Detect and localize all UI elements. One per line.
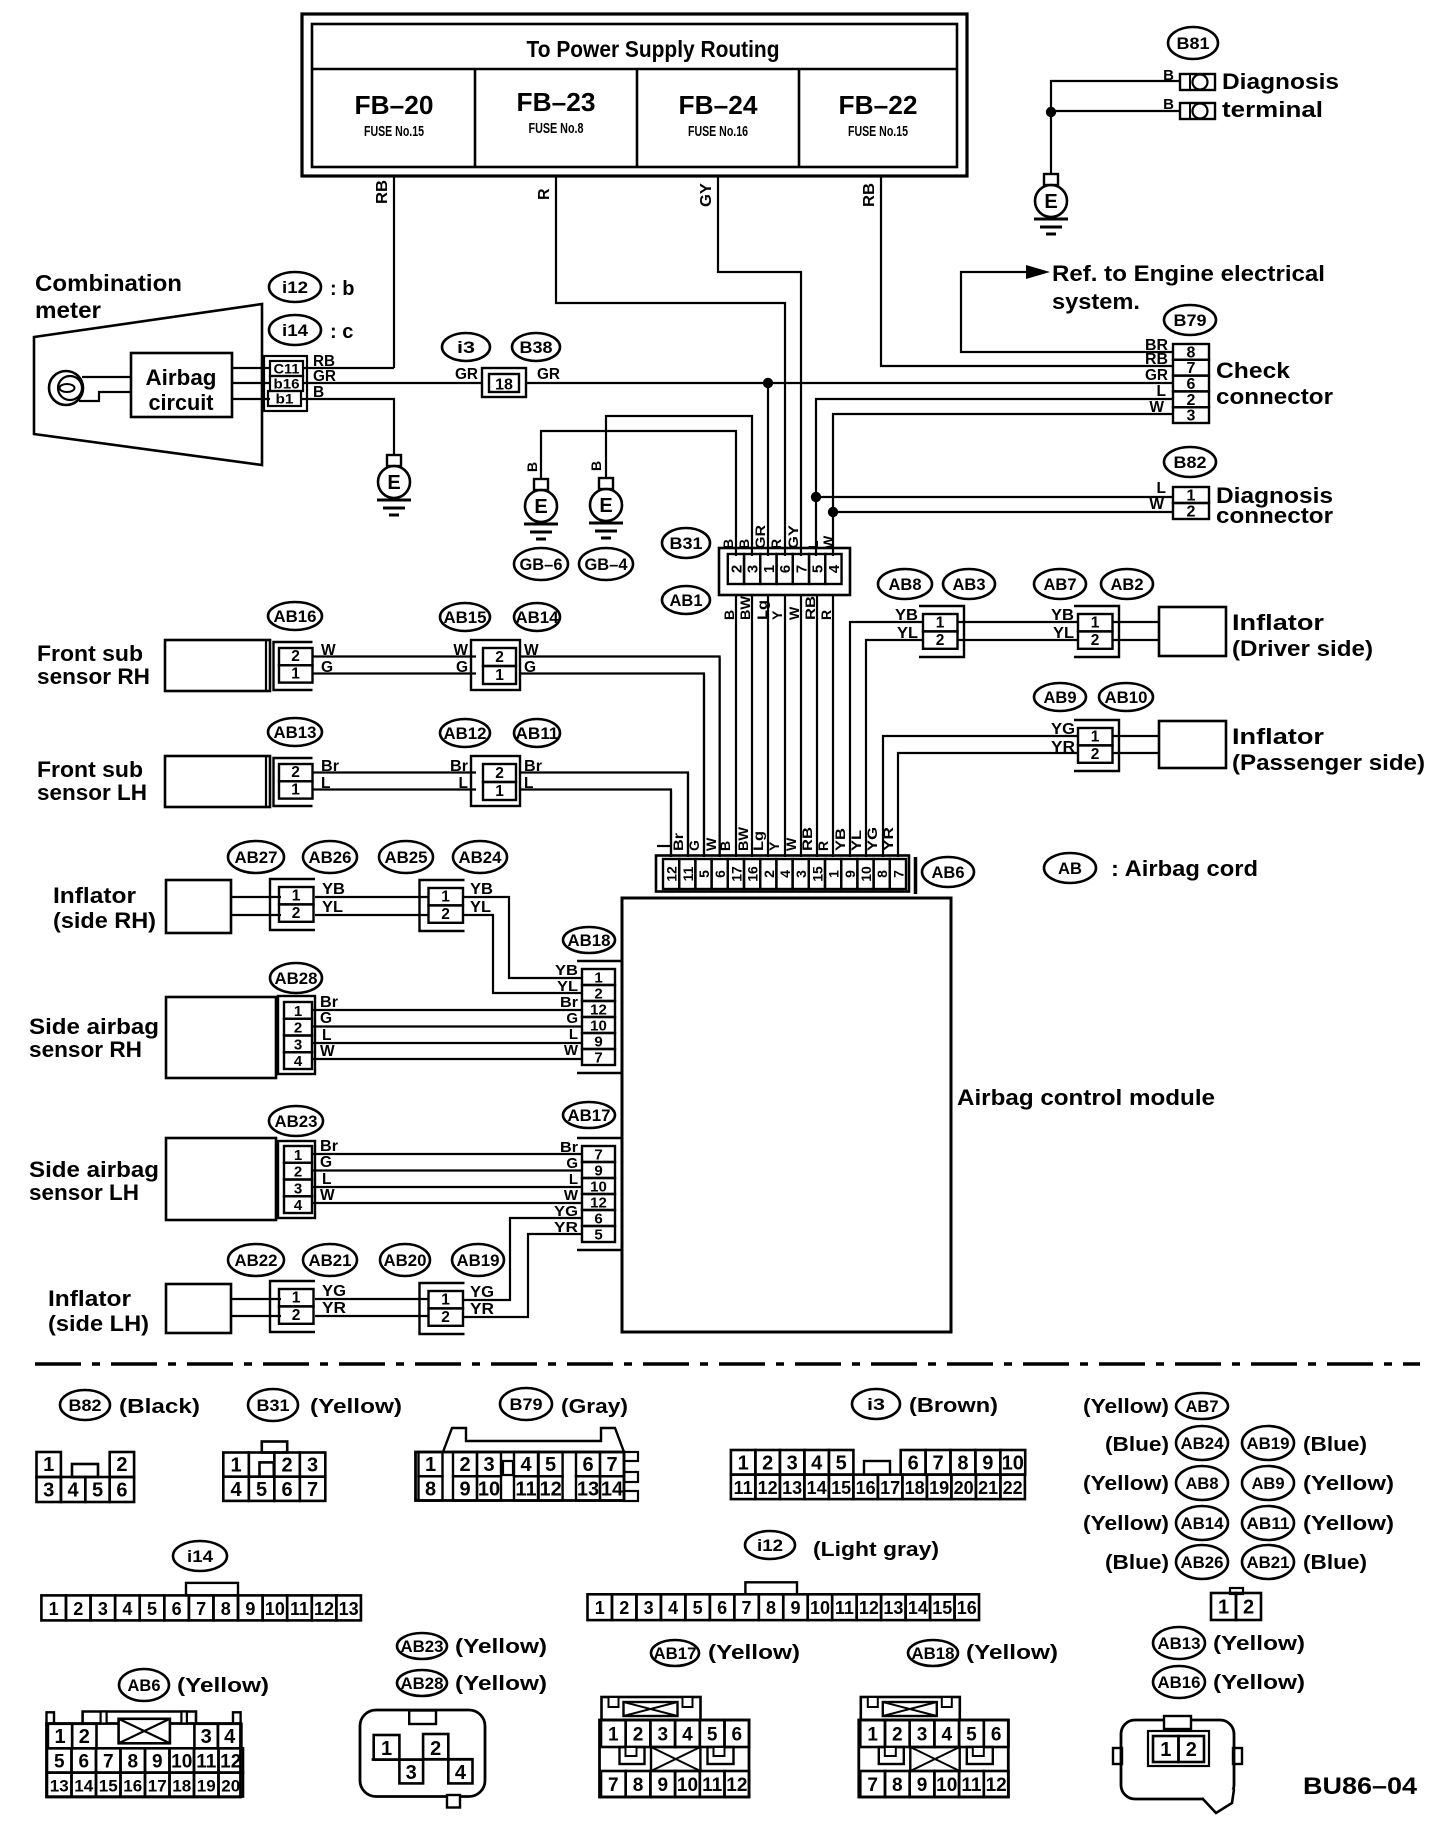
svg-text:W: W bbox=[1149, 496, 1164, 513]
svg-text:RB: RB bbox=[799, 827, 815, 851]
label AB10 bbox=[1099, 683, 1153, 711]
svg-text:7: 7 bbox=[196, 1599, 206, 1619]
legend connector 2pin rounded bbox=[1113, 1716, 1242, 1813]
svg-text:4: 4 bbox=[826, 564, 843, 573]
svg-text:AB3: AB3 bbox=[953, 575, 986, 594]
svg-text:YG: YG bbox=[470, 1284, 494, 1301]
ground E GB-6 bbox=[524, 479, 558, 539]
svg-text:1: 1 bbox=[936, 615, 945, 632]
svg-text:AB7: AB7 bbox=[1186, 1397, 1219, 1416]
wire YG AB19 to AB17 pin 6 bbox=[463, 1218, 582, 1300]
svg-text:AB21: AB21 bbox=[1247, 1553, 1290, 1572]
svg-text:(Driver side): (Driver side) bbox=[1232, 636, 1373, 661]
svg-text:7: 7 bbox=[103, 1751, 114, 1772]
svg-text:Front sub: Front sub bbox=[37, 641, 143, 666]
svg-text:4: 4 bbox=[294, 1197, 303, 1214]
svg-text:4: 4 bbox=[777, 870, 793, 878]
svg-text:circuit: circuit bbox=[149, 390, 215, 415]
wire YR AB21 to AB20 bbox=[315, 1315, 429, 1317]
svg-text:(Passenger side): (Passenger side) bbox=[1232, 750, 1425, 775]
text Front sub sensor RH bbox=[37, 641, 150, 689]
svg-text:FB–24: FB–24 bbox=[679, 90, 759, 120]
svg-text:sensor RH: sensor RH bbox=[37, 664, 150, 689]
svg-text:2: 2 bbox=[291, 648, 300, 665]
svg-text:2: 2 bbox=[761, 870, 777, 878]
label AB13 bbox=[268, 718, 322, 746]
wire YR from AB9 to AB6 pin 7 area bbox=[898, 753, 1078, 857]
svg-text:GR: GR bbox=[752, 525, 768, 549]
svg-text:5: 5 bbox=[545, 1454, 556, 1476]
svg-text:Inflator: Inflator bbox=[53, 883, 136, 908]
legend connector AB6 bbox=[47, 1712, 244, 1798]
text Ref. to Engine electrical system bbox=[1052, 261, 1325, 314]
separator line bbox=[35, 1362, 1420, 1366]
svg-text:AB19: AB19 bbox=[457, 1251, 500, 1270]
airbag warning lamp bbox=[49, 371, 83, 405]
svg-text:i3: i3 bbox=[457, 338, 475, 357]
legend label i3 (Brown) bbox=[852, 1389, 998, 1419]
legend label AB11 (Yellow) bbox=[1242, 1506, 1394, 1540]
text Diagnosis terminal bbox=[1222, 69, 1339, 122]
wires airbag circuit to meter connector bbox=[232, 368, 270, 399]
svg-text:14: 14 bbox=[74, 1777, 93, 1796]
wire B from b1 to ground bbox=[301, 399, 394, 455]
side airbag sensor LH box bbox=[166, 1138, 276, 1220]
svg-text:AB23: AB23 bbox=[275, 1112, 318, 1131]
svg-text:GY: GY bbox=[785, 524, 801, 549]
svg-text:GR: GR bbox=[455, 366, 478, 383]
svg-text:W: W bbox=[564, 1042, 579, 1059]
svg-text:YL: YL bbox=[848, 829, 864, 851]
svg-text:2: 2 bbox=[441, 1309, 450, 1326]
svg-text:9: 9 bbox=[152, 1751, 163, 1772]
wire RB from FB-20 to combination meter C11 bbox=[374, 176, 394, 368]
label AB1 bbox=[662, 586, 710, 614]
svg-text:FUSE No.15: FUSE No.15 bbox=[364, 123, 424, 140]
svg-text:7: 7 bbox=[890, 870, 906, 878]
svg-text:AB9: AB9 bbox=[1044, 688, 1077, 707]
svg-text:L: L bbox=[1157, 480, 1166, 497]
svg-text:3: 3 bbox=[201, 1726, 212, 1748]
junction W wire bbox=[828, 507, 838, 517]
svg-text:sensor RH: sensor RH bbox=[29, 1037, 142, 1062]
svg-text:21: 21 bbox=[978, 1478, 998, 1498]
svg-text:2: 2 bbox=[1187, 504, 1196, 521]
text Inflator (Driver side) bbox=[1232, 610, 1373, 661]
svg-text:GB–4: GB–4 bbox=[585, 555, 629, 574]
svg-text:YG: YG bbox=[322, 1283, 346, 1300]
svg-text:7: 7 bbox=[606, 1454, 617, 1476]
svg-text:20: 20 bbox=[221, 1777, 240, 1796]
svg-text:R: R bbox=[818, 610, 834, 620]
text Side airbag sensor RH bbox=[29, 1014, 159, 1062]
combination meter body bbox=[34, 304, 262, 465]
wire stub left of AB6 bbox=[657, 845, 671, 847]
svg-text:R: R bbox=[815, 841, 831, 851]
svg-text:B: B bbox=[588, 461, 604, 471]
svg-text:12: 12 bbox=[859, 1598, 879, 1618]
svg-text:2: 2 bbox=[892, 1725, 903, 1746]
wire L AB13 to AB12 bbox=[312, 788, 476, 790]
wire Br AB28 to AB18 pin 12 bbox=[312, 1009, 582, 1011]
label AB8 bbox=[878, 569, 932, 599]
label B82 bbox=[1164, 447, 1216, 477]
wire GR junction down to B31 pin 1 bbox=[767, 383, 769, 556]
svg-text:YB: YB bbox=[322, 881, 345, 898]
svg-text:G: G bbox=[686, 840, 702, 851]
svg-text:12: 12 bbox=[539, 1479, 561, 1501]
svg-text:AB13: AB13 bbox=[1158, 1634, 1201, 1653]
label AB25 bbox=[379, 841, 433, 873]
svg-text:11: 11 bbox=[835, 1598, 854, 1618]
svg-text:GB–6: GB–6 bbox=[520, 555, 563, 574]
svg-text:(Yellow): (Yellow) bbox=[1303, 1513, 1394, 1535]
svg-text:18: 18 bbox=[495, 377, 513, 394]
svg-text:3: 3 bbox=[787, 1452, 798, 1474]
wire B82 pin 1 line bbox=[816, 496, 1173, 498]
text Inflator (side LH) bbox=[48, 1286, 149, 1336]
svg-text:2: 2 bbox=[619, 1598, 629, 1618]
label GB-6 bbox=[514, 548, 568, 580]
wire B from B31 pin 2 to GB-6 bbox=[541, 431, 736, 556]
svg-text:B81: B81 bbox=[1177, 34, 1210, 53]
connector AB7/AB2 bbox=[1074, 606, 1119, 657]
legend label AB26 (Blue) bbox=[1105, 1545, 1228, 1579]
svg-text:(Yellow): (Yellow) bbox=[1083, 1513, 1169, 1535]
connector B82 diagnosis connector bbox=[1173, 487, 1209, 503]
svg-text:1: 1 bbox=[1160, 1739, 1171, 1761]
svg-text:(Blue): (Blue) bbox=[1303, 1434, 1367, 1456]
svg-text:13: 13 bbox=[782, 1478, 802, 1498]
svg-text:6: 6 bbox=[281, 1479, 292, 1501]
label AB21 bbox=[303, 1244, 357, 1276]
svg-text:8: 8 bbox=[633, 1775, 644, 1796]
svg-text:RB: RB bbox=[802, 596, 818, 620]
svg-text:b1: b1 bbox=[276, 392, 295, 407]
svg-text:1: 1 bbox=[49, 1599, 59, 1619]
svg-text:2: 2 bbox=[459, 1454, 470, 1476]
svg-text:i14: i14 bbox=[282, 321, 309, 340]
svg-text:B79: B79 bbox=[510, 1395, 543, 1414]
wire to ground E (B81) bbox=[1050, 112, 1052, 174]
svg-text:AB19: AB19 bbox=[1247, 1434, 1290, 1453]
svg-text:3: 3 bbox=[406, 1762, 417, 1784]
svg-text:14: 14 bbox=[908, 1598, 928, 1618]
wires down into AB6 from sensors bbox=[671, 658, 720, 857]
svg-text:2: 2 bbox=[495, 765, 504, 782]
svg-text:(Blue): (Blue) bbox=[1105, 1434, 1169, 1456]
svg-text:i3: i3 bbox=[867, 1395, 885, 1414]
wire G AB28 to AB18 pin 10 bbox=[312, 1025, 582, 1027]
connector AB18 bbox=[577, 961, 622, 1073]
svg-text:11: 11 bbox=[290, 1599, 309, 1619]
svg-text:2: 2 bbox=[1186, 1739, 1197, 1761]
legend label B79 (Gray) bbox=[500, 1388, 628, 1420]
svg-text:YR: YR bbox=[880, 827, 896, 851]
svg-text:4: 4 bbox=[294, 1053, 303, 1070]
svg-text:5: 5 bbox=[147, 1599, 157, 1619]
svg-text:AB26: AB26 bbox=[1181, 1553, 1224, 1572]
svg-text:AB22: AB22 bbox=[235, 1251, 278, 1270]
connector AB15/AB14 bbox=[471, 640, 520, 690]
svg-text:W: W bbox=[786, 606, 802, 620]
wires inflator RH box to AB27 bbox=[231, 897, 281, 915]
svg-text:3: 3 bbox=[657, 1725, 668, 1746]
svg-text:1: 1 bbox=[291, 666, 300, 683]
label B38 bbox=[512, 333, 560, 361]
wire labels above B31 bbox=[720, 524, 836, 549]
svg-text:12: 12 bbox=[726, 1775, 747, 1796]
svg-text:4: 4 bbox=[811, 1452, 823, 1474]
svg-text:3: 3 bbox=[917, 1725, 928, 1746]
svg-text:6: 6 bbox=[116, 1480, 127, 1502]
svg-text:sensor LH: sensor LH bbox=[29, 1180, 139, 1205]
label AB9 bbox=[1034, 683, 1086, 711]
svg-text:B79: B79 bbox=[1174, 311, 1207, 330]
legend label AB23 (Yellow) bbox=[397, 1633, 547, 1659]
svg-text:12: 12 bbox=[758, 1478, 778, 1498]
text Diagnosis connector bbox=[1216, 483, 1333, 528]
airbag circuit box bbox=[131, 353, 232, 417]
svg-text:AB28: AB28 bbox=[401, 1674, 444, 1693]
ground E GB-4 bbox=[589, 478, 623, 538]
wire YL AB24 to AB18 pin 2 bbox=[463, 915, 582, 993]
svg-text:1: 1 bbox=[291, 782, 300, 799]
svg-text:GR: GR bbox=[537, 366, 560, 383]
legend label AB21 (Blue) bbox=[1242, 1545, 1367, 1579]
front sub sensor LH box bbox=[165, 756, 270, 807]
svg-text:1: 1 bbox=[381, 1738, 392, 1760]
svg-text:11: 11 bbox=[734, 1478, 753, 1498]
label i3 bbox=[442, 333, 490, 361]
svg-text:AB16: AB16 bbox=[274, 607, 317, 626]
svg-text:connector: connector bbox=[1216, 384, 1333, 409]
svg-text:5: 5 bbox=[594, 1227, 602, 1244]
fuse FB-20 label bbox=[355, 90, 434, 140]
label B79 bbox=[1164, 305, 1216, 335]
label AB23 bbox=[269, 1106, 323, 1136]
inflator passenger side box bbox=[1159, 721, 1226, 768]
legend label AB18 (Yellow) bbox=[908, 1640, 1058, 1666]
svg-text:(Yellow): (Yellow) bbox=[177, 1675, 269, 1697]
connector AB25/AB24 bbox=[420, 880, 465, 931]
svg-text:4: 4 bbox=[941, 1725, 952, 1746]
svg-text:AB25: AB25 bbox=[385, 848, 428, 867]
label AB2 bbox=[1101, 569, 1153, 599]
legend connector AB28 bbox=[360, 1710, 485, 1808]
svg-text:2: 2 bbox=[292, 905, 301, 922]
connector AB20/AB19 bbox=[420, 1283, 465, 1334]
junction B81 wires bbox=[1046, 107, 1056, 117]
svg-text:1: 1 bbox=[43, 1454, 54, 1476]
wire YB AB26 to AB25 bbox=[315, 896, 429, 898]
svg-text:2: 2 bbox=[633, 1725, 644, 1746]
wire G AB23 to AB17 pin 9 bbox=[312, 1169, 582, 1171]
svg-text:3: 3 bbox=[98, 1599, 108, 1619]
svg-text:W: W bbox=[783, 837, 799, 851]
svg-text:9: 9 bbox=[917, 1775, 928, 1796]
svg-text:2: 2 bbox=[1243, 1597, 1254, 1619]
inline connector 18 bbox=[482, 368, 526, 397]
svg-text:system.: system. bbox=[1052, 289, 1140, 314]
svg-text:18: 18 bbox=[905, 1478, 925, 1498]
wire YG from AB9 to AB6 pin 8 area bbox=[883, 736, 1078, 857]
svg-text:BU86–04: BU86–04 bbox=[1303, 1773, 1418, 1800]
label AB27 bbox=[228, 841, 284, 873]
wire RB from FB-22 to B79 pin 7 bbox=[861, 176, 1173, 366]
svg-text:AB14: AB14 bbox=[516, 608, 560, 627]
front sub sensor RH box bbox=[165, 640, 270, 691]
svg-text:G: G bbox=[566, 1155, 578, 1172]
svg-text:12: 12 bbox=[664, 866, 680, 882]
svg-text:Br: Br bbox=[670, 832, 686, 851]
svg-text:9: 9 bbox=[842, 870, 858, 878]
wire C11 to RB riser bbox=[303, 367, 394, 369]
svg-text:3: 3 bbox=[644, 1598, 654, 1618]
svg-text:sensor LH: sensor LH bbox=[37, 780, 147, 805]
wire B82 pin 2 line bbox=[833, 511, 1173, 513]
svg-text:9: 9 bbox=[459, 1479, 470, 1501]
svg-text:(side LH): (side LH) bbox=[48, 1311, 149, 1336]
svg-text:terminal: terminal bbox=[1222, 97, 1323, 122]
svg-text:10: 10 bbox=[810, 1598, 830, 1618]
wire YG AB21 to AB20 bbox=[315, 1298, 429, 1300]
fuse FB-24 label bbox=[679, 90, 759, 140]
label AB17 bbox=[563, 1102, 615, 1128]
fuse FB-22 label bbox=[839, 90, 918, 140]
svg-text:1: 1 bbox=[826, 870, 842, 878]
svg-text:YL: YL bbox=[557, 978, 578, 995]
svg-text:5: 5 bbox=[256, 1479, 267, 1501]
legend label AB19 (Blue) bbox=[1242, 1426, 1367, 1460]
wire B from B31 pin 3 to GB-4 bbox=[606, 416, 752, 556]
svg-text:1: 1 bbox=[425, 1454, 436, 1476]
svg-text:15: 15 bbox=[831, 1478, 851, 1498]
svg-text:3: 3 bbox=[294, 1180, 302, 1197]
label AB20 bbox=[380, 1244, 430, 1276]
wire W AB28 to AB18 pin 7 bbox=[312, 1058, 582, 1060]
svg-text:2: 2 bbox=[79, 1726, 90, 1748]
svg-text:E: E bbox=[1044, 191, 1057, 213]
label AB18 bbox=[563, 927, 615, 953]
legend label AB7 (Yellow) bbox=[1083, 1393, 1228, 1419]
svg-text:W: W bbox=[564, 1187, 579, 1204]
svg-text:3: 3 bbox=[43, 1480, 54, 1502]
svg-text:4: 4 bbox=[682, 1725, 693, 1746]
connector AB27/AB26 bbox=[270, 879, 315, 930]
svg-text:(Yellow): (Yellow) bbox=[966, 1642, 1058, 1664]
svg-text:(Yellow): (Yellow) bbox=[1303, 1473, 1394, 1495]
label AB3 bbox=[943, 569, 995, 599]
wire AB2 to driver inflator bbox=[1113, 622, 1159, 640]
svg-text:1: 1 bbox=[867, 1725, 878, 1746]
connector AB12/AB11 bbox=[471, 756, 520, 806]
svg-text:4: 4 bbox=[68, 1480, 80, 1502]
svg-text:(Black): (Black) bbox=[119, 1396, 200, 1418]
svg-text:2: 2 bbox=[441, 906, 450, 923]
legend label AB13 (Yellow) bbox=[1153, 1627, 1305, 1659]
svg-text:7: 7 bbox=[932, 1452, 943, 1474]
svg-text:16: 16 bbox=[123, 1777, 142, 1796]
fuse FB-23 label bbox=[517, 87, 596, 137]
svg-text:FB–23: FB–23 bbox=[517, 87, 596, 117]
wire YR AB19 to AB17 pin 5 bbox=[463, 1234, 582, 1317]
svg-text:AB27: AB27 bbox=[235, 848, 278, 867]
svg-text:1: 1 bbox=[738, 1452, 749, 1474]
connector AB9/AB10 bbox=[1074, 720, 1119, 771]
svg-text:Br: Br bbox=[450, 758, 468, 775]
inflator driver side box bbox=[1159, 607, 1226, 656]
wire YB AB24 to AB18 pin 1 bbox=[463, 897, 582, 978]
svg-text:10: 10 bbox=[936, 1775, 957, 1796]
text Combination meter bbox=[35, 270, 182, 323]
wire lamp to airbag circuit bbox=[79, 377, 131, 401]
label AB airbag cord bbox=[1044, 853, 1258, 883]
svg-text:6: 6 bbox=[712, 870, 728, 878]
svg-text:11: 11 bbox=[702, 1775, 723, 1796]
svg-text:AB12: AB12 bbox=[444, 724, 487, 743]
svg-text:1: 1 bbox=[495, 667, 504, 684]
svg-text:1: 1 bbox=[495, 783, 504, 800]
label AB19 bbox=[452, 1244, 504, 1276]
svg-text:5: 5 bbox=[836, 1452, 847, 1474]
svg-text:GY: GY bbox=[698, 183, 715, 207]
svg-text:i12: i12 bbox=[282, 278, 308, 297]
svg-text:BW: BW bbox=[735, 826, 751, 851]
svg-text:10: 10 bbox=[1002, 1452, 1024, 1474]
svg-text:G: G bbox=[320, 1154, 332, 1171]
svg-text:L: L bbox=[322, 1027, 331, 1044]
svg-text:6: 6 bbox=[582, 1454, 593, 1476]
wire B from diagnosis terminal 1 bbox=[1051, 81, 1180, 112]
svg-text:1: 1 bbox=[292, 1290, 301, 1307]
wire BR from B79 pin 8 to engine electrical ref bbox=[961, 272, 1173, 352]
svg-text:13: 13 bbox=[883, 1598, 903, 1618]
svg-text:1: 1 bbox=[294, 1003, 302, 1020]
svg-text:Lg: Lg bbox=[750, 831, 766, 851]
svg-text:5: 5 bbox=[707, 1725, 718, 1746]
svg-text:8: 8 bbox=[221, 1599, 231, 1619]
svg-text:20: 20 bbox=[954, 1478, 974, 1498]
legend label AB28 (Yellow) bbox=[397, 1670, 547, 1696]
svg-text:B: B bbox=[721, 610, 737, 620]
wire L from B79 pin 2 to B31 pin 5 bbox=[816, 399, 1173, 556]
svg-text:5: 5 bbox=[92, 1480, 103, 1502]
svg-text:L: L bbox=[459, 775, 468, 792]
connector AB23 bbox=[278, 1141, 315, 1218]
svg-text:1: 1 bbox=[54, 1726, 65, 1748]
svg-text:11: 11 bbox=[680, 866, 696, 881]
svg-text:1: 1 bbox=[608, 1725, 619, 1746]
svg-text:3: 3 bbox=[793, 870, 809, 878]
svg-text:13: 13 bbox=[339, 1599, 359, 1619]
svg-text:2: 2 bbox=[116, 1454, 127, 1476]
wire Br AB11 to AB6 pin 11 area bbox=[520, 773, 688, 858]
svg-text:Br: Br bbox=[320, 1138, 338, 1155]
svg-text:Br: Br bbox=[560, 994, 578, 1011]
svg-text:5: 5 bbox=[54, 1751, 65, 1772]
svg-text:L: L bbox=[805, 540, 821, 549]
svg-text:FUSE No.15: FUSE No.15 bbox=[848, 123, 908, 140]
svg-text:YB: YB bbox=[555, 962, 578, 979]
svg-text:13: 13 bbox=[577, 1479, 599, 1501]
svg-text:: c: : c bbox=[330, 321, 353, 343]
svg-text:1: 1 bbox=[294, 1147, 302, 1164]
svg-text:Br: Br bbox=[560, 1139, 578, 1156]
svg-text:B: B bbox=[720, 539, 736, 549]
legend label i14 bbox=[173, 1541, 227, 1571]
text Inflator (Passenger side) bbox=[1232, 724, 1425, 775]
